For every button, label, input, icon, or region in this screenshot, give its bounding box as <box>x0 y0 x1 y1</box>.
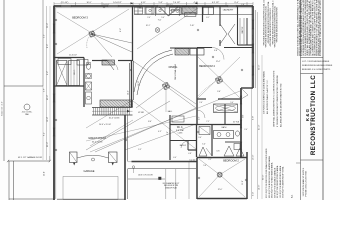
svg-text:5’-2”: 5’-2” <box>44 34 46 38</box>
svg-text:CLNG: CLNG <box>178 133 183 135</box>
svg-text:12’-8”: 12’-8” <box>47 117 49 122</box>
svg-text:9’-2”: 9’-2” <box>138 149 142 151</box>
svg-text:3548 SQ FT UNDER ROOF TOTAL: 3548 SQ FT UNDER ROOF TOTAL <box>282 165 285 198</box>
svg-text:(15’-10”): (15’-10”) <box>61 2 69 4</box>
svg-text:ALL EXTERIOR WALLS 2x4 AT 16”: ALL EXTERIOR WALLS 2x4 AT 16” O.C. <box>266 79 269 114</box>
svg-text:8’-4”: 8’-4” <box>234 2 238 4</box>
svg-text:LOT # 2012 HIDDEN CREEK: LOT # 2012 HIDDEN CREEK <box>302 61 330 63</box>
svg-text:9’-2”: 9’-2” <box>47 71 49 75</box>
svg-text:16’-8”: 16’-8” <box>138 81 140 86</box>
svg-text:4’x4’ CONC.: 4’x4’ CONC. <box>22 112 33 114</box>
svg-text:RECONSTRUCTION LLC: RECONSTRUCTION LLC <box>310 75 317 155</box>
svg-text:ALL ANGLES ARE 45 DEGREES UNLE: ALL ANGLES ARE 45 DEGREES UNLESS NOTED <box>280 83 283 127</box>
svg-text:7’-4 1/2”: 7’-4 1/2” <box>173 2 181 4</box>
svg-text:7’-0”: 7’-0” <box>158 20 162 22</box>
svg-text:3’-6”: 3’-6” <box>44 88 46 92</box>
svg-text:20’-0”: 20’-0” <box>47 142 49 147</box>
svg-text:9’-0”: 9’-0” <box>243 114 245 118</box>
svg-text:120 SQ FT IN REAR PORCH AREA: 120 SQ FT IN REAR PORCH AREA <box>279 165 282 198</box>
svg-text:GARAGE: GARAGE <box>83 169 94 173</box>
svg-text:21’-10 1/2”: 21’-10 1/2” <box>69 55 78 57</box>
svg-text:6’-8”: 6’-8” <box>214 50 218 52</box>
svg-text:2804 SQ FT OF TOTAL HEATED ARE: 2804 SQ FT OF TOTAL HEATED AREA <box>271 162 274 198</box>
svg-text:1205 SOUTH MAIN ST SUITE 4: 1205 SOUTH MAIN ST SUITE 4 <box>302 167 305 197</box>
svg-text:2’-6”: 2’-6” <box>199 102 203 104</box>
svg-text:13’-0”: 13’-0” <box>252 155 254 160</box>
svg-text:4’-8”: 4’-8” <box>188 153 192 155</box>
svg-text:5’-6”: 5’-6” <box>203 165 207 167</box>
svg-text:PAD: PAD <box>25 113 29 116</box>
svg-text:5’-8”: 5’-8” <box>158 2 162 4</box>
svg-text:2’-4”: 2’-4” <box>244 129 248 131</box>
svg-text:5’-0”: 5’-0” <box>202 144 206 146</box>
svg-text:INCLUDED IN THIS: INCLUDED IN THIS <box>164 185 178 187</box>
svg-text:BATH 2: BATH 2 <box>180 144 186 147</box>
svg-text:W.I.C.: W.I.C. <box>74 69 76 75</box>
svg-text:8’-4”: 8’-4” <box>148 121 152 123</box>
svg-text:LAUNDRY: LAUNDRY <box>223 9 234 12</box>
svg-text:96 SQ FT IN FRONT PORCH AREA: 96 SQ FT IN FRONT PORCH AREA <box>276 165 279 198</box>
svg-text:PANTRY: PANTRY <box>241 26 244 34</box>
svg-text:21’-4”: 21’-4” <box>258 125 260 130</box>
svg-text:5’-4”: 5’-4” <box>252 192 254 196</box>
svg-text:5’-8”: 5’-8” <box>167 131 169 135</box>
svg-text:10’-0”: 10’-0” <box>128 90 130 95</box>
svg-text:10’-1”: 10’-1” <box>146 25 151 27</box>
svg-text:5’-4”: 5’-4” <box>161 17 165 19</box>
svg-text:45’-1 1/2” GARAGE DOOR: 45’-1 1/2” GARAGE DOOR <box>18 156 43 159</box>
svg-text:3’-1”: 3’-1” <box>199 116 201 120</box>
svg-text:BEDROOM 3: BEDROOM 3 <box>72 16 88 20</box>
svg-text:6’-2 1/2”: 6’-2 1/2” <box>212 2 220 4</box>
svg-text:• PROVIDE SMOKE DETECTORS PER: • PROVIDE SMOKE DETECTORS PER <box>276 7 278 43</box>
svg-text:40’-6”: 40’-6” <box>47 95 49 100</box>
svg-text:HALL: HALL <box>168 110 173 113</box>
svg-text:11’-0”: 11’-0” <box>242 180 244 185</box>
svg-text:30’-0”: 30’-0” <box>47 23 49 28</box>
svg-text:3’-6”: 3’-6” <box>217 91 221 93</box>
svg-text:20’-6” x 15’-10”: 20’-6” x 15’-10” <box>99 124 111 126</box>
svg-text:CATHEDRAL CLNG: CATHEDRAL CLNG <box>174 63 177 80</box>
svg-text:14’-6”: 14’-6” <box>258 185 260 190</box>
svg-text:8’-8” FLAT: 8’-8” FLAT <box>176 129 184 132</box>
svg-text:SCALE: 1/4” = 1’-0”: SCALE: 1/4” = 1’-0” <box>0 101 3 116</box>
svg-text:60” TUB: 60” TUB <box>233 122 239 124</box>
svg-text:5’-0”: 5’-0” <box>230 102 234 104</box>
svg-text:9’ CEILINGS THROUGHOUT UNLESS: 9’ CEILINGS THROUGHOUT UNLESS NOTED OTHE… <box>277 74 279 127</box>
svg-text:16’x8’ O.H. DOOR: 16’x8’ O.H. DOOR <box>138 174 153 176</box>
svg-text:2315 SQ FT ON FIRST FLOOR PLAN: 2315 SQ FT ON FIRST FLOOR PLAN NOT INCLU… <box>265 148 268 198</box>
svg-text:5’-0 1/2”: 5’-0 1/2” <box>189 160 196 162</box>
svg-text:9’-8”: 9’-8” <box>252 116 254 120</box>
svg-text:16’-5” CLNG: 16’-5” CLNG <box>92 142 103 144</box>
svg-text:8’-0”: 8’-0” <box>47 44 49 48</box>
svg-text:23’-4”: 23’-4” <box>44 171 46 176</box>
svg-text:2’-0”: 2’-0” <box>147 17 151 19</box>
svg-text:14’-6 1/2”: 14’-6 1/2” <box>113 2 122 4</box>
svg-text:BATH: BATH <box>222 126 227 129</box>
svg-text:3/4” PLYWOOD SUBFLOOR GLUED AN: 3/4” PLYWOOD SUBFLOOR GLUED AND NAILED <box>263 70 266 114</box>
svg-text:10’-5”: 10’-5” <box>86 2 91 4</box>
svg-text:10’-0” CLNG: 10’-0” CLNG <box>109 118 120 120</box>
svg-text:UP 16R: UP 16R <box>138 112 145 114</box>
svg-text:EXTERIOR WALLS TO BE 2x4 SPF S: EXTERIOR WALLS TO BE 2x4 SPF STUDS AT 16… <box>319 0 322 56</box>
svg-text:PHONE (555) 123-4567 FAX: PHONE (555) 123-4567 FAX <box>305 170 308 196</box>
svg-text:KITCHEN: KITCHEN <box>170 10 180 12</box>
svg-text:W.I.C.: W.I.C. <box>177 127 184 129</box>
svg-text:7’-1”: 7’-1” <box>206 121 210 123</box>
svg-text:12’-4”: 12’-4” <box>216 61 221 63</box>
svg-text:60’-0”: 60’-0” <box>263 175 265 180</box>
svg-text:12’-0”: 12’-0” <box>218 189 223 191</box>
svg-text:VERIFY ALL DIMENSIONS PRIOR TO: VERIFY ALL DIMENSIONS PRIOR TO CONSTRUCT… <box>273 70 276 127</box>
svg-text:9’-6”: 9’-6” <box>120 28 122 32</box>
svg-text:6’-0”: 6’-0” <box>173 157 177 159</box>
svg-text:3’-0”: 3’-0” <box>198 137 202 139</box>
svg-text:BEDROOM 2: BEDROOM 2 <box>223 159 239 163</box>
svg-text:BUILDER: K & G RECONSTR.: BUILDER: K & G RECONSTR. <box>302 69 331 71</box>
svg-text:32’-0”: 32’-0” <box>258 65 260 70</box>
svg-text:4’-2”: 4’-2” <box>158 131 162 133</box>
svg-text:CLO.: CLO. <box>139 8 143 10</box>
svg-text:2’-2”: 2’-2” <box>208 159 212 161</box>
svg-text:6’-4”: 6’-4” <box>44 132 46 136</box>
svg-text:528 SQ FT IN DOUBLE GARAGE: 528 SQ FT IN DOUBLE GARAGE <box>273 167 276 198</box>
svg-text:2’-10”: 2’-10” <box>190 25 195 27</box>
svg-text:SUBDIVISION: HIDDEN CREEK: SUBDIVISION: HIDDEN CREEK <box>302 65 333 67</box>
svg-text:6’-1”: 6’-1” <box>206 17 210 19</box>
svg-text:489 SQ FT IN BONUS ROOM, HEATE: 489 SQ FT IN BONUS ROOM, HEATED AREA <box>268 156 271 198</box>
